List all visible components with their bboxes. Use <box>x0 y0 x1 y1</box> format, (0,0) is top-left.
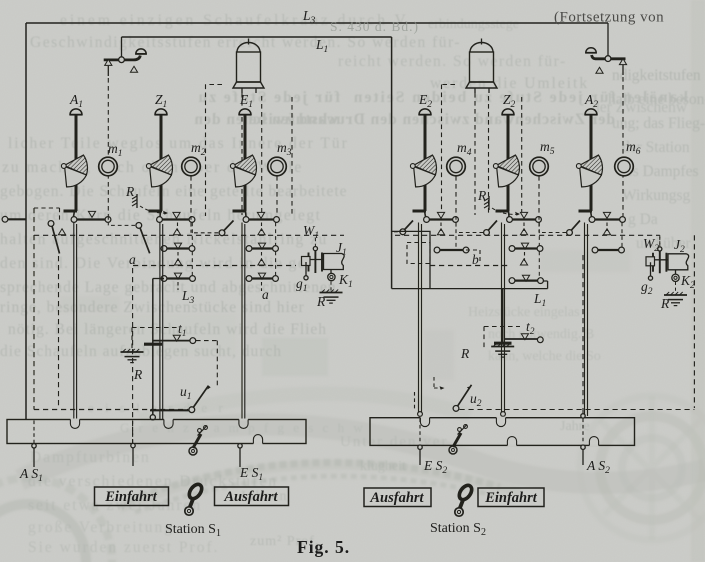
upright key station 1 <box>185 482 204 515</box>
svg-text:Ausfahrt: Ausfahrt <box>369 490 424 506</box>
wire drop pair Z1 to track bar <box>160 223 163 420</box>
contact row2 Z1 <box>161 243 195 251</box>
wire drop pair A1 to track bar <box>74 223 77 420</box>
wire L1 lower horizontal <box>392 281 548 289</box>
lamp m4 <box>447 157 466 176</box>
svg-text:ung; das Flieg-: ung; das Flieg- <box>612 115 705 132</box>
dashed border station 1 left <box>33 208 35 410</box>
track bar station 1 <box>7 420 306 444</box>
dashed corner at A1 blade <box>34 208 60 221</box>
bell station 1 <box>233 39 264 94</box>
wire middle link (E2 foot drop) <box>391 212 393 289</box>
svg-text:große Verbreitung: große Verbreitung <box>28 519 174 536</box>
contact row1 E2 <box>424 212 459 222</box>
svg-text:g Da: g Da <box>628 211 658 228</box>
signal Z2 fan <box>493 155 519 187</box>
node triangles on station1 buses <box>58 229 65 235</box>
lamp m2 <box>182 157 201 176</box>
signal Z2 mast <box>496 109 515 217</box>
node at bar top AS2 <box>581 414 585 418</box>
switch blade at E1 <box>219 221 233 236</box>
line switch left (on L1) <box>104 37 147 63</box>
contact row1 Z1 <box>157 212 195 222</box>
rosette right <box>600 416 704 520</box>
svg-text:Wirkungsg: Wirkungsg <box>622 187 691 204</box>
svg-text:b: b <box>472 252 479 267</box>
line switch right (on L3) <box>585 23 625 61</box>
svg-text:für jede Stufe zu: für jede Stufe zu <box>197 89 341 106</box>
svg-text:Station S2: Station S2 <box>430 521 486 538</box>
node triangle small left <box>130 66 137 72</box>
box Einfahrt S2 <box>478 488 544 507</box>
signal E2 fan <box>410 155 436 187</box>
contact bar above track bar S1 <box>150 409 189 411</box>
dashed bus station 2 upper <box>395 234 660 236</box>
dashed drop left of E1 from bell <box>206 85 223 217</box>
signal E2 mast <box>413 109 432 217</box>
contact row3 Z1 <box>161 273 195 281</box>
wire battery t2 drop <box>502 289 504 342</box>
signal E1 mast <box>233 109 252 217</box>
svg-text:a: a <box>129 252 136 267</box>
svg-text:wand zwischen den: wand zwischen den <box>194 111 338 128</box>
dashed drops through lamps m4 m5 <box>455 176 457 216</box>
switch blade a (A1) <box>48 221 59 254</box>
key on bar S1 <box>189 426 207 456</box>
svg-text:Unter den ver: Unter den ver <box>340 434 448 450</box>
wire L1 top horizontal <box>122 36 392 38</box>
dashed corner with arrow near u2 <box>434 377 445 390</box>
battery t2 plate <box>494 342 512 345</box>
signal Z1 fan <box>146 155 172 187</box>
ground under t1 <box>121 349 144 363</box>
dashed drop right of m3 <box>291 97 293 214</box>
signal Z1 mast <box>149 109 168 217</box>
switch blade at A2 <box>567 221 580 236</box>
contact row3 E1 <box>246 273 278 281</box>
contact row3 Z2 (wire L1 tap) <box>509 275 543 283</box>
switch u1 <box>189 386 211 413</box>
svg-text:sprechende Lage gebracht un: sprechende Lage gebracht und abgeschnitt… <box>0 279 337 296</box>
contact row2 A2 <box>592 247 624 253</box>
contact row2 Z2 <box>509 243 543 251</box>
svg-text:R: R <box>133 367 143 382</box>
dashed corner from bell 2 to E2 contacts <box>442 85 456 214</box>
signal A1 fan <box>61 155 87 187</box>
box Ausfahrt S1 <box>215 487 289 506</box>
track bar station 2 <box>370 418 635 446</box>
box Ausfahrt S2 <box>364 488 431 507</box>
dashed drop from left switch through m1 <box>107 78 109 216</box>
contact t2 <box>505 334 543 343</box>
pale blocks <box>262 338 328 376</box>
wire row3 Z1 to ground branch <box>153 278 164 280</box>
contact row1 A2 <box>589 212 625 222</box>
dashed crossing bar S2 at AS2 <box>582 419 584 445</box>
dashed links between contact rows Z2 <box>538 223 540 278</box>
signal A2 mast <box>579 109 598 217</box>
signal E1 fan <box>230 155 256 187</box>
wire vertical to track relay t1 <box>152 279 154 416</box>
svg-text:Ausfahrt: Ausfahrt <box>223 489 278 505</box>
wire L3 top horizontal <box>26 22 608 24</box>
dashed link t1 to u1 <box>196 341 217 387</box>
svg-text:ndigkeitstufen: ndigkeitstufen <box>612 67 701 84</box>
dashed border station 2 right <box>693 235 695 408</box>
dashed drops from bell 2 <box>474 93 476 215</box>
svg-text:R: R <box>125 184 135 199</box>
corner rings bottom-left <box>0 504 86 562</box>
svg-text:Einfahrt: Einfahrt <box>104 489 158 505</box>
svg-text:Jahre: Jahre <box>560 419 590 434</box>
wire drop pair A2 to track bar <box>585 223 588 417</box>
dashed link row2 E2 <box>455 223 457 248</box>
svg-text:Sie wurden zuerst Prof.: Sie wurden zuerst Prof. <box>28 539 220 556</box>
dashed bus station 1 upper <box>34 234 344 236</box>
terminal ES1 <box>238 444 242 467</box>
svg-text:klugheit: klugheit <box>360 459 406 474</box>
lamp m6 <box>615 157 634 176</box>
lamp m5 <box>530 157 549 176</box>
svg-text:erbindungsstege: erbindungsstege <box>428 17 519 32</box>
dashed branch to ground station 1 <box>132 328 180 350</box>
node triangle small right <box>596 67 603 73</box>
lamp m1 <box>99 157 118 176</box>
relay group W2 J2 K2 g2 <box>646 237 689 306</box>
svg-text:R: R <box>316 294 326 309</box>
svg-text:R: R <box>660 296 670 311</box>
dashed border station 1 bottom <box>34 409 188 411</box>
contact t1 <box>154 335 196 343</box>
wire drop pair E2 to track bar <box>419 223 422 413</box>
svg-text:nötig. Bei längeren Schauf: nötig. Bei längeren Schaufeln wird die F… <box>8 321 327 338</box>
svg-text:licher Teile weglos um das: licher Teile weglos um das Innere der Tü… <box>8 135 349 152</box>
svg-text:gebogen. Die Schaufeln eine: gebogen. Die Schaufeln eine geteilte bea… <box>0 183 348 200</box>
big pale sweep bands bottom <box>20 424 705 482</box>
terminal AS2 <box>581 445 585 465</box>
stub to border wire <box>2 216 26 222</box>
arrester R station 1 <box>132 194 168 215</box>
dashed crossing bar S1 <box>132 421 134 444</box>
lamp m3 <box>268 157 287 176</box>
relay group W1 J1 K1 g1 <box>302 238 345 303</box>
signal A1 mast <box>64 109 83 217</box>
dashed bus to u2 along bar top <box>460 409 695 411</box>
contact row2 E1 <box>246 243 278 251</box>
signal A2 fan <box>576 155 602 187</box>
arrester R station 2 <box>484 196 520 216</box>
svg-text:G r e n z d a m p f g e s c h: G r e n z d a m p f g e s c h w <box>120 420 366 435</box>
upright key station 2 <box>455 483 474 516</box>
terminal AS1 <box>32 444 36 467</box>
node triangle under right line switch <box>619 59 626 65</box>
dashed links between contact rows Z1 <box>191 223 193 276</box>
wire L1 middle vertical drop <box>391 37 393 212</box>
node triangles on station2 buses <box>437 229 444 235</box>
dashed crossing bar S2 at ES2 <box>415 392 421 444</box>
dashed bus station 1 lower <box>133 265 296 267</box>
svg-text:Fig. 5.: Fig. 5. <box>297 537 350 557</box>
node triangle under left line switch <box>105 59 112 65</box>
dashed bus station 2 lower <box>430 265 510 267</box>
svg-text:e i s l e r d e r: e i s l e r d e r <box>88 400 227 415</box>
ground under t2 <box>491 344 514 358</box>
node at track bar left <box>150 415 155 420</box>
dashed drop left of m5 <box>521 97 523 214</box>
contact row1 Z2 <box>507 212 542 222</box>
switch blade at Z2 <box>484 221 497 236</box>
svg-text:Heizstücke eingelas: Heizstücke eingelas <box>468 305 580 320</box>
node + stub below bar S1 <box>131 443 135 466</box>
dashed stubs below rows station1 <box>177 223 179 232</box>
switch blade at E2 <box>400 221 413 235</box>
contact row1 E1 <box>243 212 279 222</box>
box around b-relay <box>392 231 430 288</box>
svg-text:R: R <box>477 188 487 203</box>
dashed stubs below rows station2 <box>440 223 442 232</box>
svg-text:R: R <box>460 346 470 361</box>
svg-text:a: a <box>262 287 269 302</box>
wire drop pair Z2 to track bar <box>502 223 505 413</box>
dashed box at t2 <box>484 327 520 349</box>
box Einfahrt S1 <box>95 487 169 506</box>
svg-text:S. 430 d. Bd.): S. 430 d. Bd.) <box>330 19 419 34</box>
dashed drop W2 from bus <box>659 235 661 246</box>
wire drop pair E1 to track bar <box>242 223 245 420</box>
dashed drops from bell 1 <box>241 93 243 215</box>
svg-text:(Fortsetzung von: (Fortsetzung von <box>554 10 664 26</box>
bell station 2 <box>466 39 497 94</box>
dashed crossing bar S1 at AS1 <box>33 421 35 444</box>
svg-text:reicht werden. So werden: reicht werden. So werden für- <box>338 53 567 70</box>
dashed drop from right switch through m6 <box>622 77 624 216</box>
contact row2 E2 <box>434 247 469 253</box>
dashed links between contact rows A2 <box>621 223 623 248</box>
dashed drops through lamps m2 m3 <box>190 176 192 216</box>
wire left border vertical from L3 <box>25 23 27 419</box>
battery t1 plate <box>144 343 162 346</box>
terminal ES2 <box>418 445 422 465</box>
switch u2 <box>453 385 471 412</box>
key on bar S2 <box>449 425 467 455</box>
contact row A1 <box>71 211 111 222</box>
svg-text:Einfahrt: Einfahrt <box>484 490 538 506</box>
dashed links between contact rows E1 <box>275 223 277 276</box>
svg-text:Station S1: Station S1 <box>165 522 221 539</box>
switch blade at Z1 <box>136 223 150 254</box>
